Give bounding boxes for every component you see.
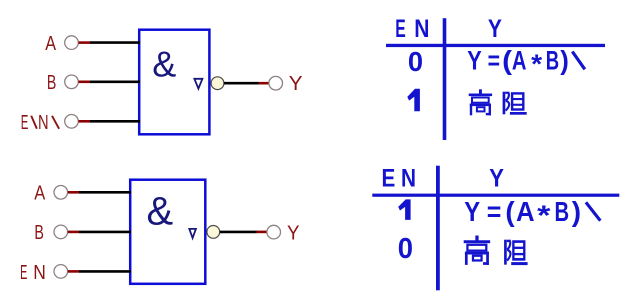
T1 row2 EN value 1 (407, 89, 420, 112)
wire B to U2 (68, 231, 131, 234)
T1 row1 output Y=(A*B)\ (467, 46, 585, 80)
tri-state NAND gate U2 body (130, 180, 205, 284)
T2 row2 high-impedance glyph GAO (464, 236, 490, 265)
output wire U2 to Y (220, 231, 267, 234)
svg-text:): ) (560, 46, 569, 76)
svg-text:A: A (516, 196, 535, 227)
svg-text:Y: Y (489, 164, 504, 192)
T2 header EN (382, 164, 417, 192)
U2 output inversion bubble (207, 226, 220, 239)
wire EN-bar to U1 (79, 120, 141, 123)
T2 row1 EN value 1 (398, 199, 410, 220)
svg-text:*: * (537, 200, 550, 231)
input terminal B (U1) (65, 75, 79, 89)
truth table T2 vertical rule (436, 166, 440, 291)
U1 output inversion bubble (211, 77, 224, 90)
U1 tri-state triangle (194, 79, 202, 89)
output wire U1 to Y (224, 82, 269, 85)
T2 row2 high-impedance glyph ZU (504, 240, 527, 265)
input terminal A (U2) (54, 186, 68, 200)
input terminal B (U2) (54, 225, 68, 239)
wire EN to U2 (68, 270, 131, 273)
label EN-bar (U1) (21, 112, 59, 134)
svg-text:E: E (20, 262, 27, 284)
svg-text:A: A (34, 182, 46, 204)
svg-text:B: B (34, 222, 44, 244)
svg-text:0: 0 (408, 46, 423, 77)
svg-text:N: N (38, 112, 49, 134)
T1 header EN (395, 15, 429, 43)
svg-text:N: N (414, 15, 429, 43)
svg-text:&: & (152, 43, 176, 84)
truth table T2 horizontal rule (372, 194, 619, 197)
svg-text:Y: Y (289, 73, 303, 95)
tri-state NAND gate U1 body (139, 30, 209, 135)
svg-text:B: B (555, 196, 570, 227)
input terminal EN (U2) (54, 265, 68, 279)
svg-text:Y: Y (464, 196, 480, 227)
svg-text:*: * (531, 49, 543, 79)
svg-text:E: E (395, 15, 406, 43)
svg-text:(: ( (502, 46, 512, 76)
svg-text:=: = (488, 46, 500, 76)
svg-text:Y: Y (467, 46, 482, 76)
output terminal Y (U2) (267, 225, 281, 239)
svg-text:N: N (401, 164, 416, 192)
svg-text:): ) (572, 196, 581, 227)
svg-text:A: A (45, 33, 56, 55)
truth table T1 vertical rule (443, 18, 447, 140)
svg-text:Y: Y (488, 15, 502, 43)
wire A to U2 (68, 191, 131, 194)
svg-text:B: B (546, 46, 559, 76)
output terminal Y (U1) (269, 76, 283, 90)
svg-text:E: E (21, 112, 29, 134)
T1 row2 high-impedance glyph ZU (503, 92, 527, 115)
svg-text:0: 0 (398, 233, 413, 265)
truth table T1 horizontal rule (386, 44, 605, 47)
svg-text:N: N (33, 262, 46, 284)
input terminal A (U1) (65, 36, 79, 50)
T1 row2 high-impedance glyph GAO (469, 89, 492, 115)
svg-text:E: E (382, 164, 396, 192)
svg-text:Y: Y (287, 223, 300, 245)
label EN (U2) (20, 262, 46, 284)
svg-text:&: & (147, 190, 174, 234)
svg-text:(: ( (505, 196, 515, 227)
U2 tri-state triangle (189, 229, 196, 238)
svg-text:B: B (47, 72, 56, 94)
wire B to U1 (79, 81, 141, 84)
input terminal EN-bar (U1) (65, 115, 79, 129)
wire A to U1 (79, 41, 141, 44)
T2 row1 output Y=(A*B)\ (464, 196, 600, 231)
svg-text:=: = (487, 196, 502, 227)
svg-text:A: A (512, 46, 527, 76)
